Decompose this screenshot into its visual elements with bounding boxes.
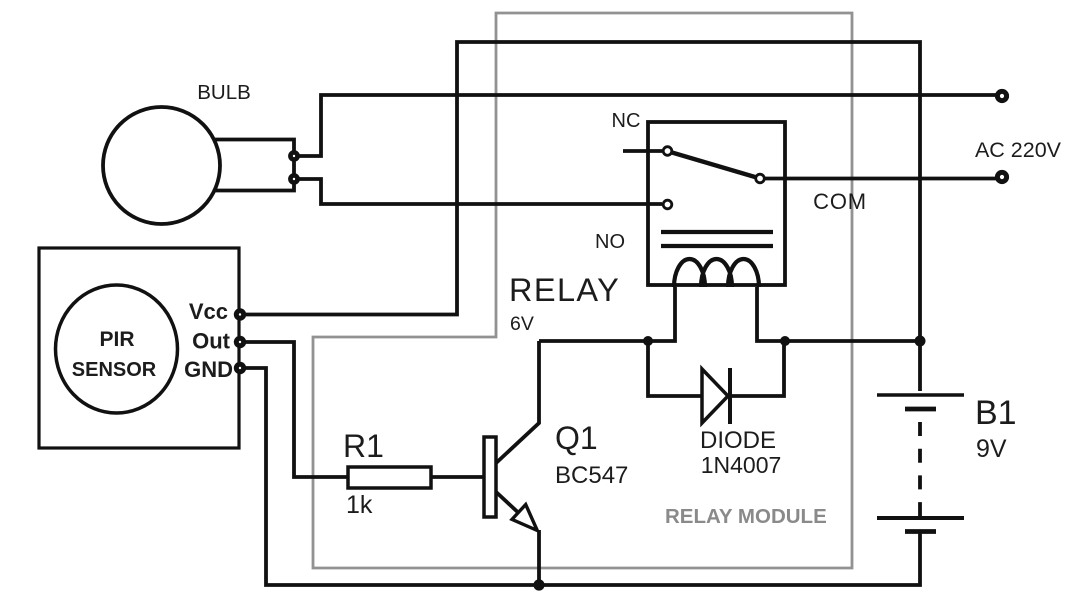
svg-text:RELAY: RELAY — [509, 272, 620, 308]
svg-text:B1: B1 — [975, 394, 1017, 432]
svg-text:GND: GND — [184, 357, 233, 382]
svg-text:Vcc: Vcc — [189, 299, 228, 324]
svg-text:1N4007: 1N4007 — [701, 452, 782, 478]
svg-text:DIODE: DIODE — [700, 427, 776, 454]
svg-text:Out: Out — [192, 329, 231, 354]
svg-text:6V: 6V — [510, 313, 534, 335]
svg-text:PIR: PIR — [99, 328, 134, 351]
svg-text:R1: R1 — [343, 428, 384, 464]
svg-text:Q1: Q1 — [555, 420, 598, 456]
svg-text:NO: NO — [595, 231, 625, 253]
svg-text:9V: 9V — [976, 435, 1007, 463]
svg-text:NC: NC — [612, 110, 641, 132]
svg-text:COM: COM — [813, 189, 867, 214]
svg-text:BC547: BC547 — [555, 462, 628, 489]
svg-text:RELAY MODULE: RELAY MODULE — [665, 505, 827, 528]
svg-text:BULB: BULB — [197, 81, 251, 104]
svg-text:SENSOR: SENSOR — [72, 359, 157, 381]
svg-text:1k: 1k — [346, 491, 373, 519]
svg-text:AC 220V: AC 220V — [975, 138, 1062, 162]
